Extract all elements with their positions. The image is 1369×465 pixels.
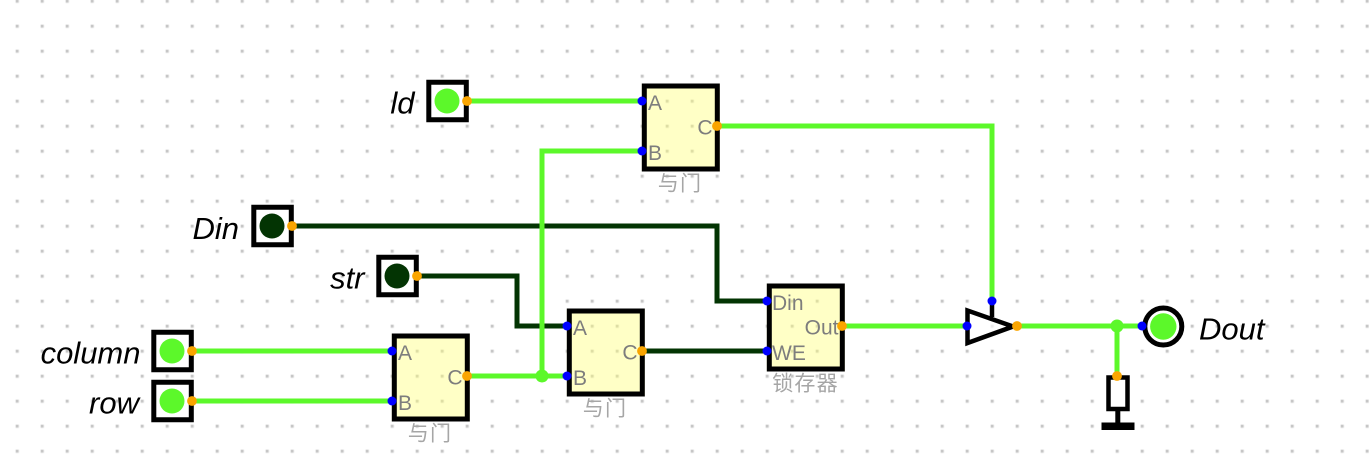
- AND gate U1 border and pin labels: [644, 86, 717, 169]
- pin dot buffer enable (blue): [988, 297, 997, 306]
- junction node at Dout / pull resistor: [1111, 320, 1124, 333]
- svg-text:A: A: [398, 342, 412, 365]
- svg-text:C: C: [447, 367, 462, 390]
- svg-text:Dout: Dout: [1199, 312, 1266, 347]
- wire AND1 input B down to junction (bright green): [542, 151, 642, 376]
- pin dot str output (orange): [412, 271, 422, 281]
- pin dot buffer input (blue): [963, 322, 972, 331]
- pin dot latch WE (blue): [763, 347, 772, 356]
- svg-text:B: B: [573, 367, 587, 390]
- pin dot latch Din (blue): [763, 297, 772, 306]
- svg-text:B: B: [648, 142, 662, 165]
- output pin Dout (circle with green dot): [1145, 308, 1182, 345]
- wire buffer output to Dout (bright green): [1017, 324, 1142, 329]
- input pin Din (square with dark green dot, logic 0): [254, 207, 291, 245]
- wire Din to latch Din input (dark green, logic 0): [292, 226, 767, 301]
- wire latch Out to buffer input (bright green): [842, 324, 967, 329]
- pin dot pull resistor top (orange): [1112, 371, 1122, 381]
- svg-text:C: C: [622, 342, 637, 365]
- yellow fill latch U4: [767, 284, 845, 372]
- svg-text:Out: Out: [805, 317, 839, 340]
- svg-text:C: C: [697, 117, 712, 140]
- svg-text:A: A: [648, 92, 662, 115]
- tri-state buffer U5 outline: [968, 302, 1014, 343]
- yellow fill AND gate U1: [642, 84, 720, 172]
- pin dot AND3.B (blue): [563, 372, 572, 381]
- wire column to AND2 input A (bright green): [192, 349, 392, 354]
- yellow fill AND gate U2: [392, 334, 470, 422]
- pin dot column output (orange): [187, 346, 197, 356]
- pin dot AND1.B (blue): [638, 147, 647, 156]
- input pin column (square with bright green dot): [154, 332, 192, 370]
- pin dot Din output (orange): [287, 221, 297, 231]
- pin dot AND2.B (blue): [388, 397, 397, 406]
- latch U4 border and pin labels: [769, 286, 842, 369]
- wire AND1 output C to buffer enable (bright green): [717, 126, 992, 301]
- svg-text:ld: ld: [390, 86, 416, 121]
- pin dot AND2.A (blue): [388, 347, 397, 356]
- svg-text:str: str: [330, 261, 366, 296]
- svg-text:与门: 与门: [658, 173, 702, 196]
- tri-state buffer U5 fill: [968, 311, 1014, 344]
- AND gate U2 border and pin labels: [394, 336, 467, 419]
- svg-text:A: A: [573, 317, 587, 340]
- pin dot AND1.A (blue): [638, 97, 647, 106]
- pin dot AND1.C (orange): [712, 121, 722, 131]
- input pin row (square with bright green dot): [154, 382, 192, 420]
- svg-text:与门: 与门: [583, 398, 627, 421]
- svg-text:row: row: [89, 386, 142, 421]
- yellow fill AND gate U3: [567, 309, 645, 397]
- pin dot Dout input (blue): [1138, 322, 1147, 331]
- wire row to AND2 input B (bright green): [192, 399, 392, 404]
- pin dot buffer output (orange): [1012, 321, 1022, 331]
- pin dot AND3.C (orange): [637, 346, 647, 356]
- pull-down resistor R1 with ground: [1102, 378, 1135, 431]
- wire AND3 output C to latch WE (dark green, logic 0): [642, 349, 767, 354]
- wire str to AND3 input A (dark green, logic 0): [417, 276, 567, 326]
- wire junction down to pull resistor (bright green): [1115, 326, 1120, 376]
- pin dot AND3.A (blue): [563, 322, 572, 331]
- input pin ld (square with bright green dot): [429, 82, 467, 120]
- svg-text:column: column: [41, 336, 141, 371]
- svg-text:Din: Din: [192, 211, 239, 246]
- svg-text:与门: 与门: [408, 423, 452, 446]
- junction node at AND2.C / AND1.B / AND3.B: [536, 370, 549, 383]
- svg-text:B: B: [398, 392, 412, 415]
- pin dot latch Out (orange): [837, 321, 847, 331]
- svg-text:Din: Din: [772, 292, 804, 315]
- input pin str (square with dark green dot, logic 0): [379, 257, 417, 295]
- svg-text:锁存器: 锁存器: [772, 373, 839, 396]
- wire ld to AND1 input A (bright green, logic 1): [467, 99, 642, 104]
- pin dot AND2.C (orange): [462, 371, 472, 381]
- svg-text:WE: WE: [772, 342, 806, 365]
- wire AND2 output C to AND3 input B (bright green): [467, 374, 567, 379]
- pin dot ld output (orange): [462, 96, 472, 106]
- AND gate U3 border and pin labels: [569, 311, 642, 394]
- pin dot row output (orange): [187, 396, 197, 406]
